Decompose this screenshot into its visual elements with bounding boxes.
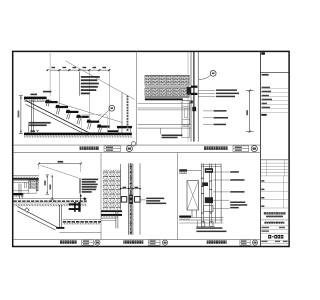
bracket box below slab xyxy=(182,101,190,125)
floor note rows xyxy=(29,122,51,124)
mid leader lines xyxy=(203,111,213,125)
mullion rungs xyxy=(201,178,211,214)
dark soffit band xyxy=(145,98,183,100)
X-braced box xyxy=(187,181,199,210)
bottom row title bar top line xyxy=(13,239,260,241)
mid leader notes xyxy=(214,110,229,125)
hanger channel below slab xyxy=(18,184,20,194)
landing slab xyxy=(24,97,47,99)
risers xyxy=(46,99,101,134)
diagonal handrail line B xyxy=(40,97,123,122)
stringer diagonals xyxy=(17,207,60,229)
base mat xyxy=(117,126,132,128)
leader note rows xyxy=(81,76,100,94)
hanger column xyxy=(58,205,60,227)
top bracket xyxy=(205,168,213,173)
dimension ticks xyxy=(47,69,111,71)
top leader lines xyxy=(198,90,215,96)
drawing number xyxy=(268,235,283,239)
panel C number bubble xyxy=(252,240,257,245)
landing label xyxy=(31,94,38,96)
gap lines xyxy=(145,85,190,87)
consultant row texts xyxy=(262,87,272,109)
panel B number bubble xyxy=(162,240,167,245)
panel divider top row xyxy=(135,51,137,145)
joint ticks xyxy=(130,166,132,233)
dimension text marks xyxy=(52,67,107,68)
panel A title text xyxy=(60,240,77,243)
panel A scale box xyxy=(82,240,94,245)
right riser dimension line xyxy=(121,93,123,134)
slab top line xyxy=(145,74,190,76)
support box with hatch xyxy=(29,180,38,191)
tread nosing lips xyxy=(46,100,101,126)
deck lines xyxy=(145,96,190,98)
up arrow xyxy=(80,195,82,201)
landing floor band xyxy=(13,198,86,200)
bottom leader notes xyxy=(197,220,199,227)
panel 1 scale box xyxy=(104,146,120,152)
revision table xyxy=(260,159,289,161)
stamp rows xyxy=(260,176,289,208)
center bolt xyxy=(129,195,132,204)
leader spine xyxy=(79,178,81,193)
stringer plates xyxy=(27,101,93,135)
landing support wall xyxy=(30,99,32,133)
upper slab band xyxy=(13,175,38,177)
stem below X-box xyxy=(191,210,193,217)
second connection xyxy=(202,182,208,186)
panel 2 number bubble xyxy=(251,146,257,152)
top row title bar lines xyxy=(13,144,260,146)
right vertical dimension xyxy=(246,90,254,133)
strip line 1 xyxy=(260,71,289,73)
concrete band 1 xyxy=(145,76,190,86)
wall mullion verticals xyxy=(188,52,198,142)
dim line xyxy=(121,188,140,190)
glass line xyxy=(139,163,141,234)
top leader notes xyxy=(216,89,239,97)
panel B title text xyxy=(123,240,143,243)
lower slab step bar xyxy=(13,190,28,192)
treads xyxy=(45,101,118,132)
rotated riser dim text column xyxy=(127,96,129,132)
panel 2 scale box xyxy=(233,146,249,152)
concrete wall hatch xyxy=(103,170,121,210)
drawing title xyxy=(264,222,284,224)
bracket plates xyxy=(121,197,127,203)
detail callout box xyxy=(81,114,107,132)
suspended ceiling lines xyxy=(138,125,191,129)
extension lines xyxy=(50,53,109,129)
lower slab band xyxy=(179,216,191,218)
isolator diamond xyxy=(25,208,30,213)
wall below slab xyxy=(115,210,117,228)
panel A number bubble xyxy=(95,240,100,245)
title block strip left edge xyxy=(259,51,261,246)
panel 1 number bubble xyxy=(126,146,132,152)
panel 2 title text xyxy=(204,146,228,150)
panel divider bottom row B|C xyxy=(177,153,179,240)
panel C scale box xyxy=(240,240,250,245)
vertical dims xyxy=(45,175,54,200)
leader note rows xyxy=(82,179,99,193)
strip heading text xyxy=(262,74,269,76)
panel B scale box xyxy=(148,240,160,245)
panel divider bottom row A|B xyxy=(100,153,102,240)
strip sub heading xyxy=(261,114,266,116)
bottom strip rows xyxy=(260,239,289,241)
wall face line xyxy=(120,164,122,210)
bottom leader note xyxy=(160,128,162,134)
top horizontals xyxy=(201,163,221,165)
slab-wall connection xyxy=(187,87,191,95)
lower bracket box xyxy=(182,127,190,138)
floor level mark xyxy=(30,130,35,132)
diagonal leader xyxy=(41,165,80,178)
panel C title text xyxy=(207,240,227,243)
small box below support xyxy=(29,188,36,193)
steel post assembly xyxy=(74,202,76,212)
panel 1 title text xyxy=(80,147,100,151)
mullion feet xyxy=(201,222,205,227)
floor slab edge dark bands xyxy=(101,210,122,212)
project name xyxy=(263,212,285,214)
base line xyxy=(59,232,101,234)
leader xyxy=(140,199,146,201)
left vertical dimension xyxy=(19,96,23,134)
strip top mark xyxy=(261,52,265,54)
mullion verticals xyxy=(129,163,133,234)
sheet border xyxy=(13,51,289,246)
circle marker above title bar xyxy=(131,142,135,146)
right dim text xyxy=(246,110,248,115)
mid bracket xyxy=(205,197,213,203)
concrete band 2 xyxy=(145,88,190,96)
section bubble xyxy=(210,70,216,76)
ceiling furring lines xyxy=(138,103,191,110)
top dimension line xyxy=(50,69,109,71)
rotated dim text left xyxy=(18,111,20,118)
mullion verticals xyxy=(201,164,221,224)
ground floor slab xyxy=(24,131,132,133)
diagonal reference line A xyxy=(66,61,135,100)
consultant rule lines xyxy=(260,89,288,113)
left step verticals xyxy=(19,193,21,198)
landing hatch xyxy=(24,99,44,101)
section diamond xyxy=(83,197,87,200)
leader note block spine xyxy=(78,72,80,96)
dim line 350 xyxy=(39,163,81,165)
leaders and notes xyxy=(213,172,230,208)
callout bubble with curved leader xyxy=(109,105,115,111)
lower floor band xyxy=(63,218,101,220)
top-left slab stub xyxy=(179,169,187,171)
lower box xyxy=(204,206,213,212)
